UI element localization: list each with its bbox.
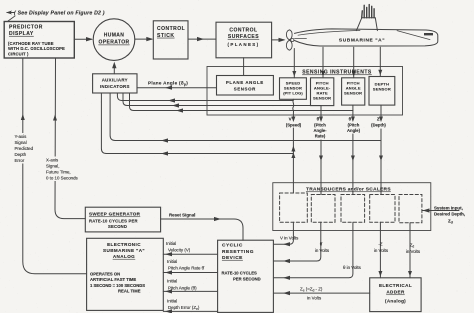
wire aux feedback depth H1 — [110, 93, 381, 143]
wire initial pitch angle — [163, 289, 217, 293]
svg-text:( See Display Panel on Figure: ( See Display Panel on Figure D2 ) — [14, 11, 105, 17]
predictor display — [4, 22, 74, 59]
svg-text:SWEEP GENERATOR: SWEEP GENERATOR — [89, 212, 141, 217]
svg-text:CONTROL: CONTROL — [157, 26, 185, 32]
svg-text:Initial: Initial — [167, 259, 177, 264]
transducer dashed box 5 — [399, 195, 422, 223]
wire theta-dot sensor output down to transducer 2 — [319, 106, 323, 195]
submarine sail — [356, 18, 377, 31]
label initial pitch angle — [167, 279, 197, 291]
svg-text:SENSOR: SENSOR — [373, 87, 391, 92]
label theta-dot in volts — [315, 242, 330, 254]
svg-text:Future Time,: Future Time, — [46, 170, 71, 175]
label initial pitch angle rate — [167, 259, 205, 271]
label minus Z in volts — [374, 242, 389, 254]
wire minus Z to electrical adder — [378, 222, 382, 277]
svg-text:ANALOG: ANALOG — [113, 254, 135, 259]
label x-axis signal — [45, 157, 79, 182]
svg-text:DISPLAY: DISPLAY — [9, 31, 34, 37]
note: see display panel on figure D2 — [6, 11, 15, 22]
svg-text:SUBMARINE "A": SUBMARINE "A" — [103, 248, 145, 253]
svg-text:Velocity (V): Velocity (V) — [168, 248, 191, 253]
svg-text:SECOND: SECOND — [108, 224, 127, 229]
svg-text:θ in Volts: θ in Volts — [343, 265, 362, 270]
submarine hull — [295, 29, 438, 46]
svg-text:Z: Z — [377, 117, 380, 122]
svg-text:in Volts: in Volts — [374, 248, 389, 253]
svg-text:ADDER: ADDER — [386, 290, 405, 295]
wire Zd to electrical adder — [408, 223, 412, 278]
svg-text:in Volts: in Volts — [406, 249, 421, 254]
svg-text:in Volts: in Volts — [307, 296, 322, 301]
pitch angle sensor — [342, 78, 365, 105]
svg-text:SENSOR: SENSOR — [313, 96, 331, 101]
svg-text:STICK: STICK — [157, 33, 175, 39]
wire predicted depth error loop to predictor — [21, 58, 87, 274]
wire submarine drop to speed sensor — [292, 49, 296, 78]
svg-text:in Volts: in Volts — [315, 248, 330, 253]
wire initial velocity — [163, 252, 217, 256]
pitch angle-rate sensor — [311, 78, 334, 106]
wire Ze adder to cyclic — [273, 291, 369, 295]
electrical adder — [370, 278, 421, 312]
control stick — [153, 21, 188, 59]
svg-text:SENSING INSTRUMENTS: SENSING INSTRUMENTS — [302, 70, 372, 76]
svg-text:Depth: Depth — [15, 152, 27, 157]
svg-text:V in Volts: V in Volts — [280, 236, 299, 241]
submarine propeller — [286, 30, 294, 50]
svg-text:Error: Error — [15, 158, 25, 163]
wire sweep signal up to predictor — [53, 58, 85, 219]
wire theta sensor output down to transducer 3 — [351, 105, 355, 194]
wire human operator to control stick — [135, 37, 154, 41]
svg-text:Desired Depth,: Desired Depth, — [434, 212, 465, 217]
svg-text:Rate): Rate) — [315, 134, 326, 139]
svg-text:Angle-: Angle- — [313, 128, 327, 133]
plane angle sensor — [217, 76, 274, 96]
wire control stick to control surfaces — [188, 37, 216, 41]
svg-text:SENSOR: SENSOR — [234, 87, 256, 92]
wire aux feedback speed — [117, 93, 293, 103]
svg-text:OPERATES ON: OPERATES ON — [90, 272, 120, 277]
transducer dashed box 3 — [341, 195, 365, 223]
svg-text:ELECTRONIC: ELECTRONIC — [107, 242, 141, 247]
transducer dashed box 1 — [280, 193, 308, 222]
label theta in volts — [343, 265, 362, 270]
depth sensor — [369, 77, 395, 106]
svg-text:DEVICE: DEVICE — [222, 255, 243, 261]
wire Z sensor output down to transducer 4 — [379, 105, 383, 194]
wire initial pitch angle rate — [163, 270, 217, 274]
sweep generator — [85, 207, 160, 232]
svg-text:RATE-10 CYCLES PER: RATE-10 CYCLES PER — [89, 219, 138, 224]
wire aux feedback speed H2 — [101, 93, 295, 156]
speed sensor (pit log) — [280, 78, 307, 100]
svg-text:Predicted: Predicted — [15, 146, 34, 151]
svg-text:(Analog): (Analog) — [385, 299, 406, 304]
svg-text:(Pitch: (Pitch — [348, 123, 360, 128]
wire submarine drop to pitch angle-rate sensor — [321, 47, 325, 78]
electronic submarine A analog — [87, 238, 164, 310]
submarine masts — [362, 5, 374, 18]
label initial velocity — [166, 241, 191, 253]
wire predictor to human operator — [74, 37, 93, 41]
transducer dashed box 4 — [370, 195, 395, 223]
svg-text:Angle): Angle) — [347, 128, 361, 133]
svg-text:SUBMARINE "A": SUBMARINE "A" — [339, 38, 385, 44]
svg-text:(Pitch: (Pitch — [314, 123, 326, 128]
wire V sensor output down to transducer 1 — [291, 99, 295, 193]
wire theta in volts to cyclic — [273, 222, 353, 280]
svg-text:CONTROL: CONTROL — [229, 28, 257, 34]
svg-text:V: V — [289, 117, 292, 122]
svg-text:System Input,: System Input, — [434, 206, 463, 211]
control surfaces — [216, 22, 272, 58]
transducers and/or scalers container — [273, 183, 431, 231]
svg-text:PREDICTOR: PREDICTOR — [9, 25, 43, 31]
svg-text:PER SECOND: PER SECOND — [233, 277, 261, 282]
svg-text:(PLANES): (PLANES) — [228, 42, 260, 47]
auxiliary indicators — [93, 74, 137, 93]
human operator U-op — [93, 19, 135, 61]
svg-text:TRANSDUCERS and/or SCALERS: TRANSDUCERS and/or SCALERS — [306, 187, 391, 193]
wire submarine drop to pitch angle sensor — [352, 47, 356, 78]
label V in volts — [280, 236, 299, 241]
svg-text:X-axis: X-axis — [46, 158, 59, 163]
svg-text:RATE-10 CYCLES: RATE-10 CYCLES — [222, 271, 257, 276]
svg-text:(Speed): (Speed) — [286, 123, 302, 128]
svg-text:(Depth): (Depth) — [371, 123, 386, 128]
label y-axis signal — [13, 133, 42, 164]
svg-text:Pitch Angle (θ): Pitch Angle (θ) — [168, 285, 197, 290]
svg-text:CIRCUIT ): CIRCUIT ) — [8, 51, 29, 56]
svg-text:INDICATORS: INDICATORS — [100, 84, 130, 89]
svg-text:Y-axis: Y-axis — [15, 134, 28, 139]
wire aux feedback pitch angle — [130, 93, 353, 113]
svg-text:Initial: Initial — [167, 298, 177, 303]
svg-text:OPERATOR: OPERATOR — [98, 40, 129, 46]
svg-text:Initial: Initial — [166, 241, 176, 246]
svg-text:-Z: -Z — [378, 242, 382, 247]
wire system input to transducer 5 — [422, 208, 459, 212]
label Ze equation — [300, 287, 323, 301]
svg-text:REAL TIME: REAL TIME — [118, 289, 141, 294]
wire auxiliary indicators to human operator — [112, 62, 116, 74]
svg-text:Signal,: Signal, — [46, 164, 59, 169]
wire control surfaces to plane angle sensor — [243, 58, 245, 76]
label Zd in volts — [406, 243, 421, 255]
svg-text:1 SECOND = 100 SECONDS: 1 SECOND = 100 SECONDS — [90, 283, 145, 288]
wire theta-dot in volts to cyclic — [273, 222, 320, 263]
svg-text:0 to 10 Seconds: 0 to 10 Seconds — [46, 176, 79, 181]
sensing instruments container — [207, 67, 403, 116]
wire reset signal sweep to cyclic — [161, 217, 243, 240]
wire aux feedback pitch angle rate — [123, 93, 321, 108]
label initial depth error — [167, 298, 200, 311]
wire plane angle signal to aux indicators — [137, 86, 217, 90]
svg-text:SENSOR: SENSOR — [344, 91, 362, 96]
wire submarine drop to depth sensor — [378, 47, 382, 76]
wire control surfaces to submarine — [272, 38, 286, 42]
svg-text:Reset Signal: Reset Signal — [169, 212, 195, 217]
svg-text:PLANE ANGLE: PLANE ANGLE — [226, 80, 264, 85]
cyclic resetting device — [218, 240, 274, 312]
svg-text:(PIT LOG): (PIT LOG) — [283, 91, 303, 96]
svg-text:HUMAN: HUMAN — [104, 33, 125, 39]
wire V in volts to cyclic — [273, 222, 293, 246]
svg-text:RESETTING: RESETTING — [222, 249, 254, 255]
svg-text:Signal: Signal — [15, 140, 27, 145]
svg-text:ARTIFICIAL FAST TIME: ARTIFICIAL FAST TIME — [90, 277, 136, 282]
submarine bow marking — [424, 33, 433, 35]
svg-text:Initial: Initial — [167, 279, 177, 284]
svg-text:ELECTRICAL: ELECTRICAL — [379, 283, 412, 288]
svg-text:AUXILIARY: AUXILIARY — [102, 78, 128, 83]
transducer dashed box 2 — [311, 195, 335, 223]
svg-text:SURFACES: SURFACES — [228, 34, 259, 40]
svg-text:Pitch Angle Rate θ̇: Pitch Angle Rate θ̇ — [168, 266, 205, 271]
wire initial depth error — [163, 309, 217, 313]
svg-text:CYCLIC: CYCLIC — [222, 243, 243, 249]
